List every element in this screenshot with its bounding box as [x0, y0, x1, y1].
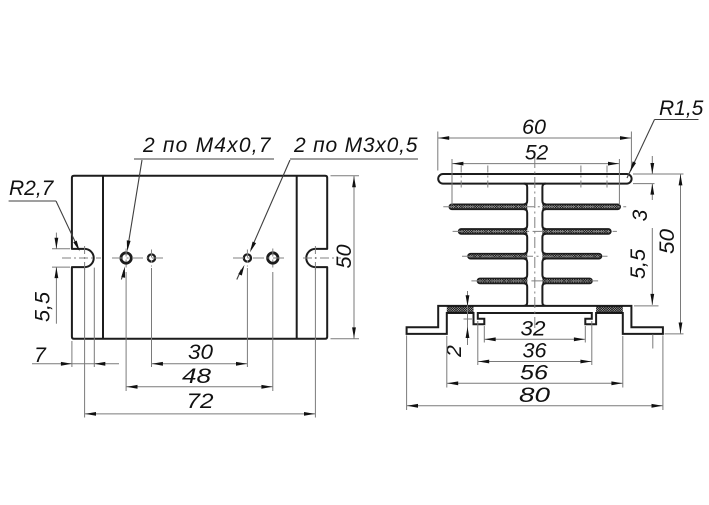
spine left edge segment 4 — [524, 259, 527, 279]
right wall edge line — [296, 176, 298, 339]
fin row 1 centerline — [443, 206, 626, 208]
vertical tick hole M3 right — [246, 250, 248, 267]
dim 50 line right view — [680, 174, 682, 334]
svg-text:60: 60 — [522, 116, 546, 139]
ext 52 right — [618, 159, 620, 205]
fin row 1 right — [542, 204, 620, 209]
ext hole M4 left — [125, 272, 127, 391]
dim 2 line — [467, 291, 469, 345]
svg-text:5,5: 5,5 — [32, 292, 55, 322]
fin row 2 left — [459, 229, 528, 234]
underline R2,7 — [9, 200, 56, 202]
dim 32 line — [484, 338, 585, 340]
dim 60 line — [438, 137, 632, 139]
centerline right slot — [303, 257, 341, 259]
hole M4 right — [268, 253, 278, 263]
top fin bar — [438, 174, 631, 184]
ext 32 left — [483, 326, 485, 343]
dim 56 line — [447, 382, 623, 384]
spine left edge segment 1 — [524, 184, 527, 205]
vertical tick hole M4 left — [125, 249, 127, 268]
dim 5,5 line right view — [651, 228, 653, 305]
ext 80 left — [406, 335, 408, 410]
ext hole M4 right — [272, 272, 274, 391]
hole M4 left — [121, 253, 131, 263]
ext 36 left — [477, 321, 479, 365]
leader M4 lower — [121, 270, 124, 279]
base hatched section right — [596, 306, 623, 313]
vertical center axis — [534, 157, 536, 331]
svg-text:R2,7: R2,7 — [9, 177, 55, 200]
stray extension line below 5,5 dim — [652, 334, 654, 348]
hole M3 left — [148, 254, 155, 261]
ext 80 right — [662, 335, 664, 410]
dim 30 line — [152, 363, 248, 365]
hole centerline tick 4 in top bar — [606, 166, 608, 190]
spine right edge segment 4 — [542, 259, 545, 279]
leader R1,5 — [627, 120, 655, 179]
spine right edge segment 3 — [542, 234, 545, 254]
vertical tick hole M4 right — [272, 249, 274, 268]
ext line slot top — [52, 248, 70, 250]
leader M3 lower — [237, 270, 241, 280]
svg-text:2 по M3x0,5: 2 по M3x0,5 — [293, 134, 418, 157]
ext left slot center — [84, 268, 86, 418]
heatsink front view plate outline with side mounting slots — [72, 176, 327, 339]
dim 3 lower line — [651, 184, 653, 200]
spine left edge segment 2 — [524, 209, 527, 229]
ext plate bottom right — [331, 338, 360, 340]
centerline left slot — [62, 257, 101, 259]
dim 50 line left view — [353, 176, 355, 339]
base hatched section left — [447, 306, 474, 313]
svg-text:5,5: 5,5 — [627, 249, 650, 279]
ext hole M3 right — [246, 268, 248, 367]
dim 5,5 line lower — [55, 267, 57, 324]
dim 52 line — [452, 163, 619, 165]
spine right edge segment 5 — [542, 283, 545, 306]
ext 32 right — [584, 326, 586, 343]
fin row 3 centerline — [462, 255, 608, 257]
dim 7 line — [32, 363, 119, 365]
svg-text:2 по M4x0,7: 2 по M4x0,7 — [142, 134, 272, 157]
spine left edge segment 3 — [524, 234, 527, 254]
svg-text:56: 56 — [520, 362, 548, 385]
vertical tick left slot — [84, 246, 86, 271]
spine right edge segment 1 — [542, 184, 545, 205]
spine right edge segment 2 — [542, 209, 545, 229]
ext 36 right — [591, 321, 593, 365]
svg-text:3: 3 — [629, 209, 652, 221]
fin row 3 left — [468, 254, 527, 259]
fin row 1 left — [449, 204, 527, 209]
ext left slot end — [93, 268, 95, 367]
fin row 3 right — [542, 254, 601, 259]
vertical tick right slot — [314, 246, 316, 271]
ext hook shelf — [464, 318, 473, 320]
underline R1,5 — [655, 119, 699, 121]
ext plate top right — [331, 175, 360, 177]
svg-text:72: 72 — [187, 390, 214, 413]
ext 60 right — [630, 132, 632, 171]
fin row 4 right — [542, 278, 592, 283]
hole centerline tick 3 in top bar — [580, 166, 582, 190]
fin row 2 right — [542, 229, 611, 234]
ext right slot center — [314, 268, 316, 418]
underline M3 callout — [290, 158, 418, 160]
underline M4 callout — [134, 158, 274, 160]
svg-text:R1,5: R1,5 — [659, 97, 704, 120]
leader R2,7 — [56, 201, 78, 249]
ext hole M3 left — [151, 268, 153, 367]
left wall edge line — [102, 176, 104, 339]
ext line slot bottom — [52, 266, 70, 268]
svg-text:36: 36 — [523, 340, 547, 363]
hole M3 right — [244, 254, 251, 261]
hole centerline tick 1 in top bar — [460, 166, 462, 190]
hole centerline tick 2 in top bar — [487, 166, 489, 190]
ext bar top right — [633, 173, 684, 175]
svg-text:50: 50 — [333, 244, 356, 268]
fin row 4 left — [477, 278, 527, 283]
fin row 4 centerline — [471, 280, 598, 282]
vertical tick hole M3 left — [151, 250, 153, 267]
svg-text:50: 50 — [656, 229, 679, 254]
spine left edge segment 5 — [524, 283, 527, 306]
ext 52 left — [451, 159, 453, 205]
dim 3 upper line — [651, 156, 653, 174]
centerline through right hole pair — [233, 257, 287, 259]
dim 72 line — [85, 413, 316, 415]
svg-text:80: 80 — [519, 384, 550, 407]
dim 80 line — [407, 405, 663, 407]
ext base top right — [634, 305, 659, 307]
svg-text:32: 32 — [521, 318, 546, 341]
ext 56 right — [622, 336, 624, 388]
dim 36 line — [478, 361, 592, 363]
ext 56 left — [446, 336, 448, 388]
dim 48 line — [126, 386, 273, 388]
ext 60 left — [437, 132, 439, 171]
ext plate left edge — [71, 341, 73, 367]
dim 5,5 line upper — [55, 233, 57, 249]
base channel profile — [407, 306, 663, 334]
svg-text:30: 30 — [188, 341, 213, 364]
svg-text:52: 52 — [525, 142, 549, 165]
centerline through left hole pair — [112, 257, 166, 259]
leader M3 upper — [251, 160, 290, 250]
ext base bottom right — [665, 333, 684, 335]
svg-text:48: 48 — [182, 365, 211, 388]
fin row 2 centerline — [453, 230, 617, 232]
leader M4 upper — [128, 160, 142, 248]
ext bar bottom right — [633, 183, 655, 185]
